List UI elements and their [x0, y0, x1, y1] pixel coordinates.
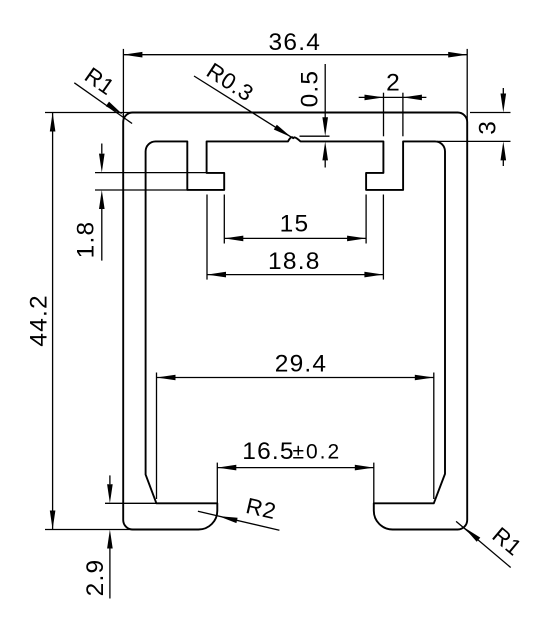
svg-text:1.8: 1.8	[73, 221, 100, 259]
svg-text:2: 2	[386, 70, 401, 97]
svg-text:0.5: 0.5	[297, 70, 324, 108]
dimension 2 (hook web width)	[359, 93, 427, 137]
dimension 18.8 (between hook webs)	[207, 195, 383, 280]
leader R0.3 (top center rib radius)	[194, 76, 291, 137]
dimension 0.5 (rib height)	[300, 64, 330, 168]
dimension 3 (top wall thickness)	[437, 88, 511, 166]
dimension 16.5±0.2 (bottom opening)	[217, 463, 373, 503]
profile outline (extrusion cross-section)	[123, 113, 467, 530]
svg-text:36.4: 36.4	[269, 29, 321, 56]
svg-text:44.2: 44.2	[25, 294, 52, 346]
svg-text:16.5: 16.5	[242, 438, 294, 465]
svg-text:±0.2: ±0.2	[292, 441, 341, 464]
dimension 44.2 (left overall height)	[45, 113, 133, 530]
leader R2 (bottom lip inner radius)	[198, 511, 280, 530]
dimension 2.9 (bottom flange height)	[105, 475, 157, 598]
svg-text:18.8: 18.8	[268, 248, 320, 275]
dimension 1.8 (hook flange thickness)	[95, 144, 207, 261]
leader R1 (top-left corner radius)	[74, 83, 132, 124]
svg-text:15: 15	[280, 210, 310, 237]
dimension 29.4 (lower cavity width)	[157, 373, 434, 500]
svg-text:29.4: 29.4	[275, 351, 327, 378]
dimension 36.4 (top overall width)	[123, 49, 467, 122]
svg-text:3: 3	[474, 120, 501, 135]
svg-text:2.9: 2.9	[82, 559, 109, 597]
dimension 15 (between hook flange tips)	[224, 195, 366, 244]
leader R1 (bottom-right corner radius)	[456, 521, 511, 567]
